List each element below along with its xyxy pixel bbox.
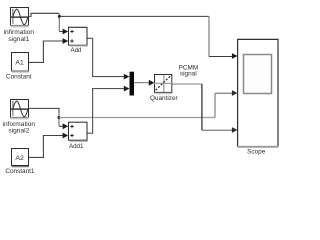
svg-text:signal1: signal1 <box>8 36 29 43</box>
svg-text:signal2: signal2 <box>8 128 29 135</box>
svg-text:Add: Add <box>70 47 82 54</box>
svg-text:A2: A2 <box>15 155 24 162</box>
svg-text:signal: signal <box>180 70 197 77</box>
svg-text:Scope: Scope <box>247 149 266 156</box>
svg-text:Constant: Constant <box>6 74 32 81</box>
svg-text:Add1: Add1 <box>69 143 84 150</box>
svg-text:Quantizer: Quantizer <box>150 95 179 102</box>
svg-text:A1: A1 <box>15 59 24 66</box>
svg-text:infirmation: infirmation <box>4 29 35 36</box>
svg-text:Constant1: Constant1 <box>5 168 35 175</box>
